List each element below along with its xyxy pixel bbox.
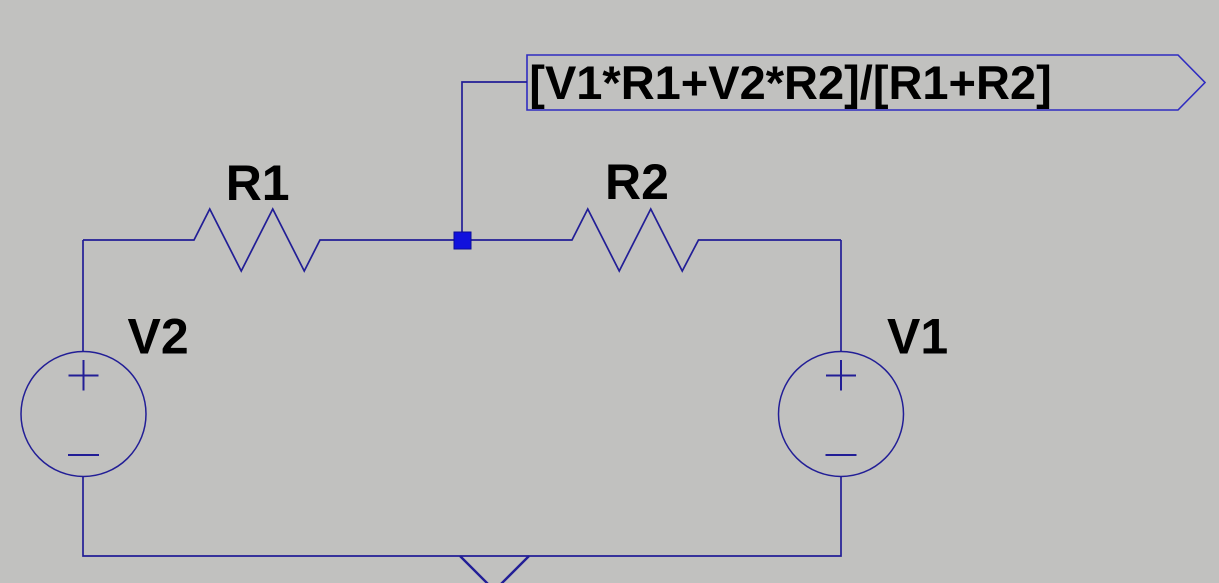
svg-text:R2: R2 [605,154,669,210]
svg-text:V1: V1 [887,308,948,364]
svg-text:[V1*R1+V2*R2]/[R1+R2]: [V1*R1+V2*R2]/[R1+R2] [529,56,1051,109]
svg-text:V2: V2 [128,308,189,364]
svg-text:R1: R1 [226,155,290,211]
